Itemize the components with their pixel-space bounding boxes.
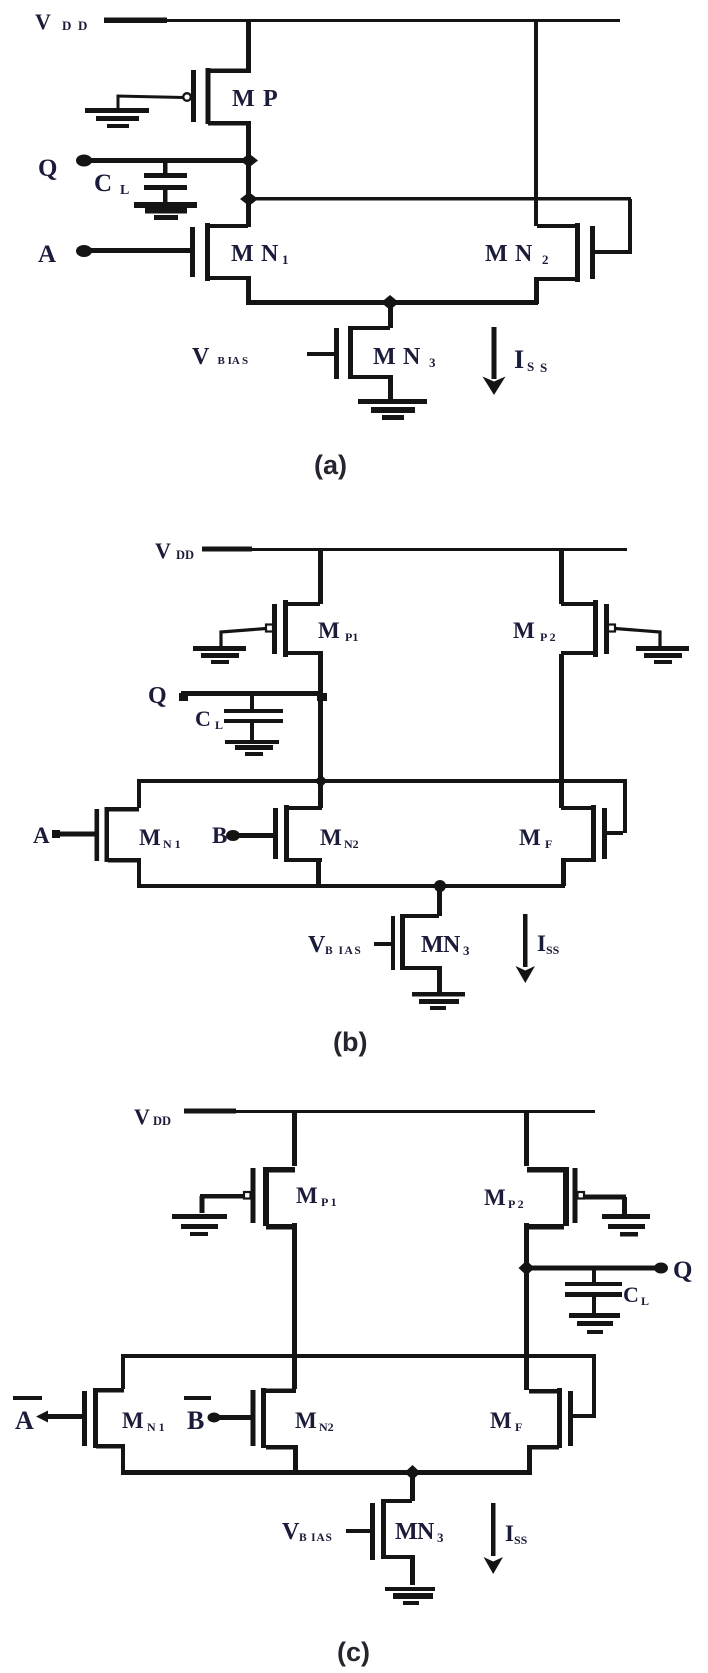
wire node Q down to MF drain (c): [524, 1268, 529, 1390]
wire MP drain down to node Q (a): [246, 121, 251, 162]
ground at MP2 gate (c): [602, 1214, 650, 1237]
ground at MP1 gate (c): [172, 1214, 227, 1236]
node Q junction (b): [317, 693, 327, 701]
label MN3 (b): [421, 932, 470, 958]
svg-text:C: C: [94, 170, 112, 197]
svg-text:(a): (a): [314, 450, 347, 480]
wire MP2 drain down to node Q (c): [524, 1223, 529, 1268]
current arrow ISS (a): [483, 327, 506, 395]
wire source bus rail (b): [137, 884, 565, 888]
wire MP2 gate to ground (b): [615, 629, 660, 649]
caption (b): [333, 1027, 367, 1057]
ground at MN3 (c): [385, 1587, 435, 1605]
svg-text:1: 1: [282, 252, 289, 267]
label ISS (c): [505, 1521, 528, 1547]
svg-text:D: D: [78, 18, 87, 33]
node tail junction (a): [381, 295, 399, 310]
wire MP1 gate to ground (b): [221, 629, 266, 649]
wire MN2 gate lead (a): [595, 250, 628, 254]
svg-text:N: N: [515, 241, 533, 267]
label MN2 (c): [295, 1408, 334, 1434]
transistor MN2 (b): [273, 805, 322, 862]
transistor MN3 (c): [346, 1472, 415, 1585]
wire MF gate drop (c): [592, 1356, 596, 1418]
svg-text:M: M: [122, 1408, 144, 1433]
svg-text:L: L: [120, 183, 129, 198]
wire MF gate lead (c): [573, 1414, 594, 1418]
node junction bus (b): [315, 775, 328, 788]
wire Q line (b): [179, 691, 320, 701]
wire VDD rail thick segment (a): [104, 18, 167, 24]
svg-text:M: M: [373, 344, 396, 370]
label B (b): [212, 823, 227, 848]
svg-text:N 1: N 1: [147, 1420, 165, 1434]
svg-text:P1: P1: [345, 630, 358, 644]
terminal B dot (c): [208, 1413, 221, 1423]
terminal Q dot (c): [654, 1263, 668, 1274]
wire MP source to VDD (a): [246, 20, 251, 73]
label B-bar (c): [184, 1396, 211, 1435]
wire MF source down (b): [561, 858, 566, 886]
svg-text:N 1: N 1: [163, 837, 181, 851]
wire drain bus rail (c): [121, 1354, 596, 1358]
wire MN2 gate drop (a): [628, 199, 632, 254]
svg-text:V: V: [282, 1519, 300, 1545]
wire MN1 source down (a): [246, 276, 251, 305]
svg-text:(b): (b): [333, 1027, 367, 1057]
transistor MP2 (c): [527, 1167, 584, 1230]
wire VDD rail (a): [167, 19, 620, 22]
svg-text:N: N: [443, 932, 461, 958]
terminal Q dot (a): [76, 155, 92, 167]
svg-text:Q: Q: [38, 155, 57, 182]
wire MN2 drain up (c): [292, 1356, 297, 1389]
label A (a): [38, 241, 56, 268]
wire MN2 source down (b): [316, 858, 321, 884]
svg-text:SS: SS: [546, 943, 560, 957]
net VDD label (b): [155, 538, 194, 563]
svg-text:D: D: [62, 18, 71, 33]
svg-text:V: V: [134, 1104, 150, 1129]
wire node Q down to MN1 drain (a): [246, 160, 251, 227]
wire Q line (a): [84, 158, 249, 163]
node junction drain bus (a): [240, 192, 258, 206]
capacitor CL (c): [565, 1268, 622, 1314]
label MN3 (c): [395, 1519, 444, 1545]
svg-text:M: M: [296, 1183, 318, 1208]
label MN1 (b): [139, 825, 181, 851]
wire A lead (a): [84, 248, 192, 253]
wire MP2 source to VDD (b): [559, 549, 564, 604]
svg-text:P: P: [263, 86, 278, 112]
label Q (a): [38, 155, 57, 182]
transistor MN1 (a): [190, 223, 248, 281]
svg-text:M: M: [490, 1408, 512, 1433]
svg-text:3: 3: [437, 1530, 444, 1545]
label MF (b): [519, 825, 552, 851]
ground at CL (b): [225, 740, 279, 756]
wire B lead (b): [233, 833, 273, 838]
node tail junction (b): [434, 880, 446, 892]
wire MN1 source down (b): [137, 858, 141, 886]
wire MN1 drain up (c): [121, 1356, 125, 1389]
svg-text:DD: DD: [153, 1114, 171, 1128]
wire MP1 source to VDD (c): [292, 1110, 297, 1166]
svg-text:B IAS: B IAS: [299, 1532, 333, 1544]
svg-text:SS: SS: [514, 1533, 528, 1547]
transistor MF (c): [529, 1388, 573, 1450]
svg-text:A: A: [38, 241, 56, 268]
wire source bus rail (c): [121, 1470, 532, 1475]
svg-text:S: S: [540, 360, 547, 375]
wire MF source down (c): [527, 1445, 532, 1472]
svg-text:B IA S: B IA S: [218, 355, 249, 367]
wire MN1 drain up (b): [137, 781, 141, 808]
svg-text:V: V: [308, 932, 326, 958]
net VDD label (a): [35, 9, 87, 34]
svg-text:M: M: [231, 241, 254, 267]
ground at CL (a): [134, 202, 197, 220]
ground at CL (c): [569, 1313, 620, 1334]
svg-text:M: M: [318, 618, 340, 643]
transistor MP2 (b): [561, 600, 615, 657]
svg-text:C: C: [623, 1282, 639, 1307]
transistor MP1 (c): [244, 1167, 295, 1230]
svg-text:DD: DD: [176, 548, 194, 562]
label CL (b): [195, 706, 223, 732]
svg-text:P 2: P 2: [508, 1197, 524, 1211]
wire MN2 drain up (b): [318, 781, 323, 808]
svg-text:N: N: [417, 1519, 435, 1545]
svg-text:F: F: [545, 837, 552, 851]
ground at MP1 gate (b): [193, 646, 246, 664]
label MN1 (a): [231, 241, 289, 267]
svg-text:P 2: P 2: [540, 630, 556, 644]
wire Q line (c): [526, 1266, 658, 1271]
label MP2 (b): [513, 618, 556, 644]
svg-text:N2: N2: [319, 1420, 334, 1434]
transistor MN2 (a): [536, 223, 595, 282]
wire MP1 drain down (c): [292, 1223, 297, 1356]
svg-text:F: F: [515, 1420, 522, 1434]
wire drain bus rail (b): [137, 779, 627, 783]
svg-text:(c): (c): [337, 1637, 370, 1667]
svg-text:B: B: [187, 1406, 204, 1435]
wire MF gate lead (b): [607, 831, 623, 835]
ground at MN3 (b): [412, 992, 465, 1010]
current arrow ISS (c): [484, 1503, 504, 1574]
svg-text:I: I: [505, 1521, 514, 1546]
wire A lead (b): [52, 830, 95, 838]
svg-text:3: 3: [463, 943, 470, 958]
wire VDD rail thick segment (c): [184, 1109, 236, 1114]
label CL (a): [94, 170, 129, 198]
label VBIAS (c): [282, 1519, 333, 1545]
transistor MN2 (c): [251, 1388, 297, 1450]
wire MN1 source down (c): [121, 1444, 125, 1474]
svg-text:M: M: [395, 1519, 418, 1545]
wire B lead (c): [214, 1415, 252, 1420]
svg-text:A: A: [15, 1406, 34, 1435]
label MP (a): [232, 86, 278, 112]
svg-text:M: M: [485, 241, 508, 267]
wire source bus rail (a): [246, 300, 538, 305]
label MN2 (a): [485, 241, 549, 267]
wire MF gate drop (b): [623, 781, 627, 833]
ground at MP2 gate (b): [636, 646, 689, 664]
wire node to MN2 gate horizontal (a): [249, 197, 631, 201]
transistor MP (a): [183, 68, 248, 126]
node junction Q (a): [240, 154, 258, 168]
svg-text:M: M: [519, 825, 541, 850]
label A-bar (c): [13, 1396, 42, 1435]
label CL (c): [623, 1282, 649, 1308]
wire MP2 source to VDD (c): [524, 1110, 529, 1166]
capacitor CL (a): [144, 160, 187, 203]
label MN2 (b): [320, 825, 359, 851]
svg-text:Q: Q: [673, 1257, 692, 1284]
svg-text:M: M: [513, 618, 535, 643]
svg-text:A: A: [33, 823, 50, 848]
label ISS (b): [537, 931, 560, 957]
svg-text:L: L: [641, 1294, 649, 1308]
ground at MP gate (a): [85, 108, 149, 128]
wire MN2 drain to VDD (a): [534, 20, 538, 226]
node Q junction (c): [519, 1261, 535, 1276]
ground at MN3 (a): [358, 399, 427, 420]
node tail junction (c): [405, 1465, 421, 1480]
svg-text:M: M: [320, 825, 342, 850]
label MF (c): [490, 1408, 522, 1434]
label MP1 (c): [296, 1183, 337, 1209]
svg-text:M: M: [421, 932, 444, 958]
svg-text:B: B: [212, 823, 227, 848]
transistor MF (b): [561, 805, 607, 862]
transistor MN3 (a): [307, 302, 393, 400]
transistor MN1 (c): [82, 1388, 124, 1449]
wire MN2 source down (a): [534, 277, 539, 304]
svg-text:N: N: [403, 344, 421, 370]
svg-text:3: 3: [429, 355, 436, 370]
svg-text:M: M: [295, 1408, 317, 1433]
svg-text:I: I: [514, 345, 524, 374]
label ISS (a): [514, 345, 547, 375]
caption (a): [314, 450, 347, 480]
label MN3 (a): [373, 344, 436, 370]
svg-text:M: M: [484, 1185, 506, 1210]
transistor MN3 (b): [374, 886, 442, 992]
wire MP1 drain down (b): [318, 651, 323, 781]
wire MP2 gate to ground (c): [583, 1195, 627, 1215]
svg-text:L: L: [215, 718, 223, 732]
svg-text:B IAS: B IAS: [325, 945, 362, 957]
svg-text:N2: N2: [344, 837, 359, 851]
svg-text:V: V: [192, 344, 210, 370]
svg-text:N: N: [261, 241, 279, 267]
wire MN2 source down (c): [293, 1445, 298, 1472]
svg-text:P 1: P 1: [321, 1195, 337, 1209]
label MN1 (c): [122, 1408, 165, 1434]
label Q (c): [673, 1257, 692, 1284]
label Q (b): [148, 683, 167, 709]
net VDD label (c): [134, 1104, 171, 1129]
svg-text:C: C: [195, 706, 211, 731]
capacitor CL (b): [224, 696, 283, 742]
terminal B dot (b): [226, 830, 240, 841]
transistor MP1 (b): [266, 600, 320, 657]
svg-text:V: V: [155, 538, 171, 563]
svg-text:I: I: [537, 931, 546, 956]
wire MP gate to ground (a): [118, 96, 184, 110]
wire MP1 source to VDD (b): [318, 549, 323, 604]
terminal A dot (a): [76, 245, 92, 257]
caption (c): [337, 1637, 370, 1667]
svg-text:M: M: [232, 86, 255, 112]
current arrow ISS (b): [516, 914, 536, 983]
svg-text:S: S: [527, 359, 534, 374]
label MP2 (c): [484, 1185, 524, 1211]
svg-text:2: 2: [542, 252, 549, 267]
svg-text:M: M: [139, 825, 161, 850]
svg-text:V: V: [35, 9, 51, 34]
label VBIAS (a): [192, 344, 248, 370]
label VBIAS (b): [308, 932, 362, 958]
label A (b): [33, 823, 50, 848]
wire A lead with arrow (c): [36, 1411, 82, 1423]
wire VDD rail thick segment (b): [202, 547, 252, 552]
svg-text:Q: Q: [148, 683, 167, 709]
wire VDD rail (c): [236, 1110, 595, 1113]
label MP1 (b): [318, 618, 358, 644]
wire VDD rail (b): [252, 548, 627, 551]
transistor MN1 (b): [95, 807, 140, 863]
wire MP1 gate to ground (c): [200, 1194, 245, 1213]
wire MP2 drain to MF drain (b): [559, 654, 564, 808]
